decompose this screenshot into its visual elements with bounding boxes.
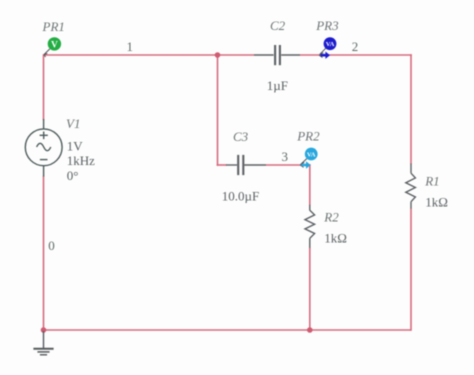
svg-text:C3: C3 [233, 129, 249, 144]
svg-text:R1: R1 [424, 174, 439, 189]
capacitor C3 [226, 155, 266, 175]
svg-text:VA: VA [326, 41, 335, 48]
junction bottom R2 [307, 327, 313, 333]
probe PR3 [319, 37, 336, 59]
svg-text:10.0µF: 10.0µF [222, 188, 259, 203]
resistor R2 [305, 205, 315, 248]
wire top net 1/2: left segment [44, 54, 255, 56]
capacitor C2 [254, 45, 300, 65]
svg-text:R2: R2 [323, 210, 339, 225]
probe PR1 [44, 37, 61, 57]
wire C3 left stub [217, 164, 227, 166]
junction node 1 [215, 52, 221, 58]
svg-text:V: V [51, 40, 58, 50]
ground [33, 331, 53, 355]
svg-text:3: 3 [282, 149, 289, 164]
svg-text:1V: 1V [67, 139, 84, 154]
svg-text:0: 0 [48, 238, 55, 253]
svg-text:1kHz: 1kHz [67, 153, 95, 168]
voltage source V1 [25, 119, 62, 177]
wire R2 to bottom [309, 248, 311, 331]
svg-text:1kΩ: 1kΩ [324, 231, 347, 246]
resistor R1 [406, 164, 416, 209]
svg-text:VA: VA [307, 152, 316, 159]
svg-text:1kΩ: 1kΩ [425, 195, 448, 210]
svg-text:1µF: 1µF [267, 78, 288, 93]
svg-text:C2: C2 [270, 18, 286, 33]
wire left vertical lower [43, 176, 45, 331]
svg-text:PR3: PR3 [315, 18, 339, 33]
wire R2 branch vertical [309, 164, 311, 205]
svg-text:PR1: PR1 [42, 19, 65, 34]
probe PR2 [300, 148, 317, 169]
wire right vertical lower [410, 209, 412, 331]
svg-text:V1: V1 [66, 116, 80, 131]
wire bottom [44, 329, 412, 331]
svg-text:2: 2 [352, 39, 359, 54]
svg-text:1: 1 [127, 39, 134, 54]
svg-text:0°: 0° [67, 168, 79, 183]
svg-text:PR2: PR2 [296, 128, 320, 143]
wire middle branch vertical [217, 55, 219, 166]
junction ground left [41, 327, 47, 333]
wire left vertical upper [43, 54, 45, 120]
wire node 3 segment [266, 164, 311, 166]
wire top right segment [300, 54, 412, 56]
wire right vertical upper [410, 54, 412, 164]
